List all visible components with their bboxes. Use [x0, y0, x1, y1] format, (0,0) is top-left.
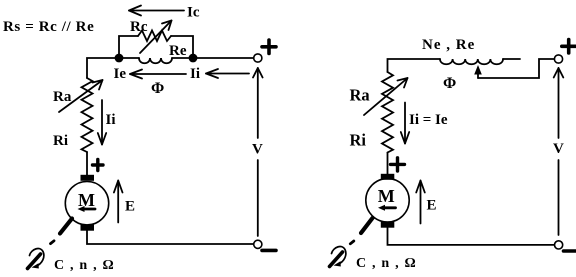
svg-text:Ii: Ii	[106, 112, 116, 128]
shaft break dash right	[350, 241, 354, 244]
current arrow Ic	[129, 6, 184, 16]
wire Ri to motor	[86, 152, 88, 175]
motor brush bottom right	[381, 221, 395, 227]
wire tap run to + terminal	[478, 59, 554, 78]
svg-text:Ri: Ri	[350, 130, 367, 149]
terminal + circle right	[554, 55, 562, 63]
wire Ri to motor right	[387, 153, 389, 175]
wire: Ra corner up to coil	[388, 59, 441, 72]
svg-text:E: E	[125, 198, 135, 214]
svg-text:Ii: Ii	[190, 66, 200, 82]
inductor Re coil	[139, 58, 172, 63]
current arrow Ie	[130, 70, 186, 79]
wire coil stub	[503, 58, 520, 60]
wire: left dot up to Rc branch	[119, 36, 138, 58]
svg-text:C , n , Ω: C , n , Ω	[54, 258, 115, 273]
label + right	[562, 40, 576, 54]
rotation torque symbol right	[330, 247, 346, 267]
wire: right dot to + terminal	[193, 57, 253, 59]
current arrow Ii top	[206, 69, 249, 78]
wire: Rc branch down to right dot	[171, 36, 193, 58]
terminal + circle	[254, 54, 262, 62]
svg-text:M: M	[78, 190, 95, 210]
wire motor to bottom rail	[87, 231, 254, 244]
rheostat Ra and resistor Ri zigzag	[82, 78, 93, 152]
voltage arrow V upper segment	[253, 68, 263, 138]
rheostat Ra and resistor Ri zigzag right	[382, 72, 393, 153]
svg-text:C , n , Ω: C , n , Ω	[356, 256, 417, 271]
motor brush top right	[381, 174, 395, 180]
motor M1 body	[65, 182, 108, 225]
svg-text:Rc: Rc	[130, 19, 148, 35]
label + supply positive	[262, 40, 276, 54]
motor M2 body	[366, 179, 409, 222]
rheostat arrow Ra	[59, 80, 103, 112]
wire: Ra corner to left dot	[87, 58, 139, 78]
svg-text:Ic: Ic	[187, 5, 200, 21]
svg-text:V: V	[252, 142, 263, 158]
resistor Rc	[138, 31, 171, 42]
rheostat arrow through Rc	[140, 21, 172, 54]
svg-text:M: M	[378, 186, 395, 206]
motor rotation arrow under M right	[378, 205, 396, 211]
inductor Ne Re coil	[440, 59, 503, 64]
rheostat arrow Ra right	[364, 78, 408, 115]
label + motor terminal right	[391, 158, 405, 171]
motor rotation arrow under M	[78, 206, 96, 212]
svg-text:Re: Re	[169, 43, 187, 59]
svg-text:Ii = Ie: Ii = Ie	[409, 112, 448, 128]
svg-text:Φ: Φ	[151, 80, 164, 97]
svg-text:Ie: Ie	[114, 66, 127, 82]
flux tap arrow into coil	[474, 65, 482, 78]
rotation torque symbol	[28, 249, 44, 269]
motor brush top	[81, 175, 95, 181]
wire: coil to right dot	[172, 57, 193, 59]
wire motor to bottom rail right	[388, 228, 555, 245]
wire V lower segment right	[558, 160, 560, 235]
motor shaft right	[361, 218, 373, 233]
svg-text:Ra: Ra	[350, 86, 370, 105]
current arrow Ii down	[98, 100, 106, 145]
svg-text:E: E	[427, 198, 437, 214]
svg-text:V: V	[553, 141, 564, 157]
emf arrow E	[114, 181, 123, 223]
terminal - circle	[254, 240, 262, 248]
label - supply negative	[262, 249, 276, 253]
label - supply negative right	[564, 249, 576, 253]
motor shaft	[60, 219, 72, 234]
svg-text:Φ: Φ	[443, 75, 456, 92]
junction node left	[115, 54, 124, 63]
svg-text:Ne , Re: Ne , Re	[422, 37, 475, 53]
svg-text:Ra: Ra	[53, 89, 72, 105]
svg-text:Ri: Ri	[53, 133, 68, 149]
current arrow Ii=Ie down	[401, 103, 409, 144]
motor brush bottom	[81, 224, 95, 230]
shaft break dash	[51, 241, 55, 244]
junction node right	[189, 54, 198, 63]
voltage arrow V upper segment right	[554, 68, 564, 138]
emf arrow E right	[416, 181, 425, 224]
terminal - circle right	[555, 241, 563, 249]
label + motor terminal	[93, 160, 104, 171]
wire V lower segment	[257, 160, 259, 236]
svg-text:Rs = Rc // Re: Rs = Rc // Re	[3, 19, 94, 35]
